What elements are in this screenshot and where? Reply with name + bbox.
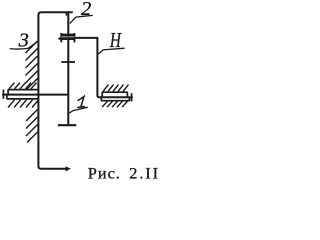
svg-text:Рис.: Рис. [88,164,121,183]
svg-text:Н: Н [109,28,122,52]
svg-text:3: 3 [18,30,29,52]
svg-text:2.II: 2.II [129,164,160,183]
svg-text:2: 2 [81,0,91,20]
